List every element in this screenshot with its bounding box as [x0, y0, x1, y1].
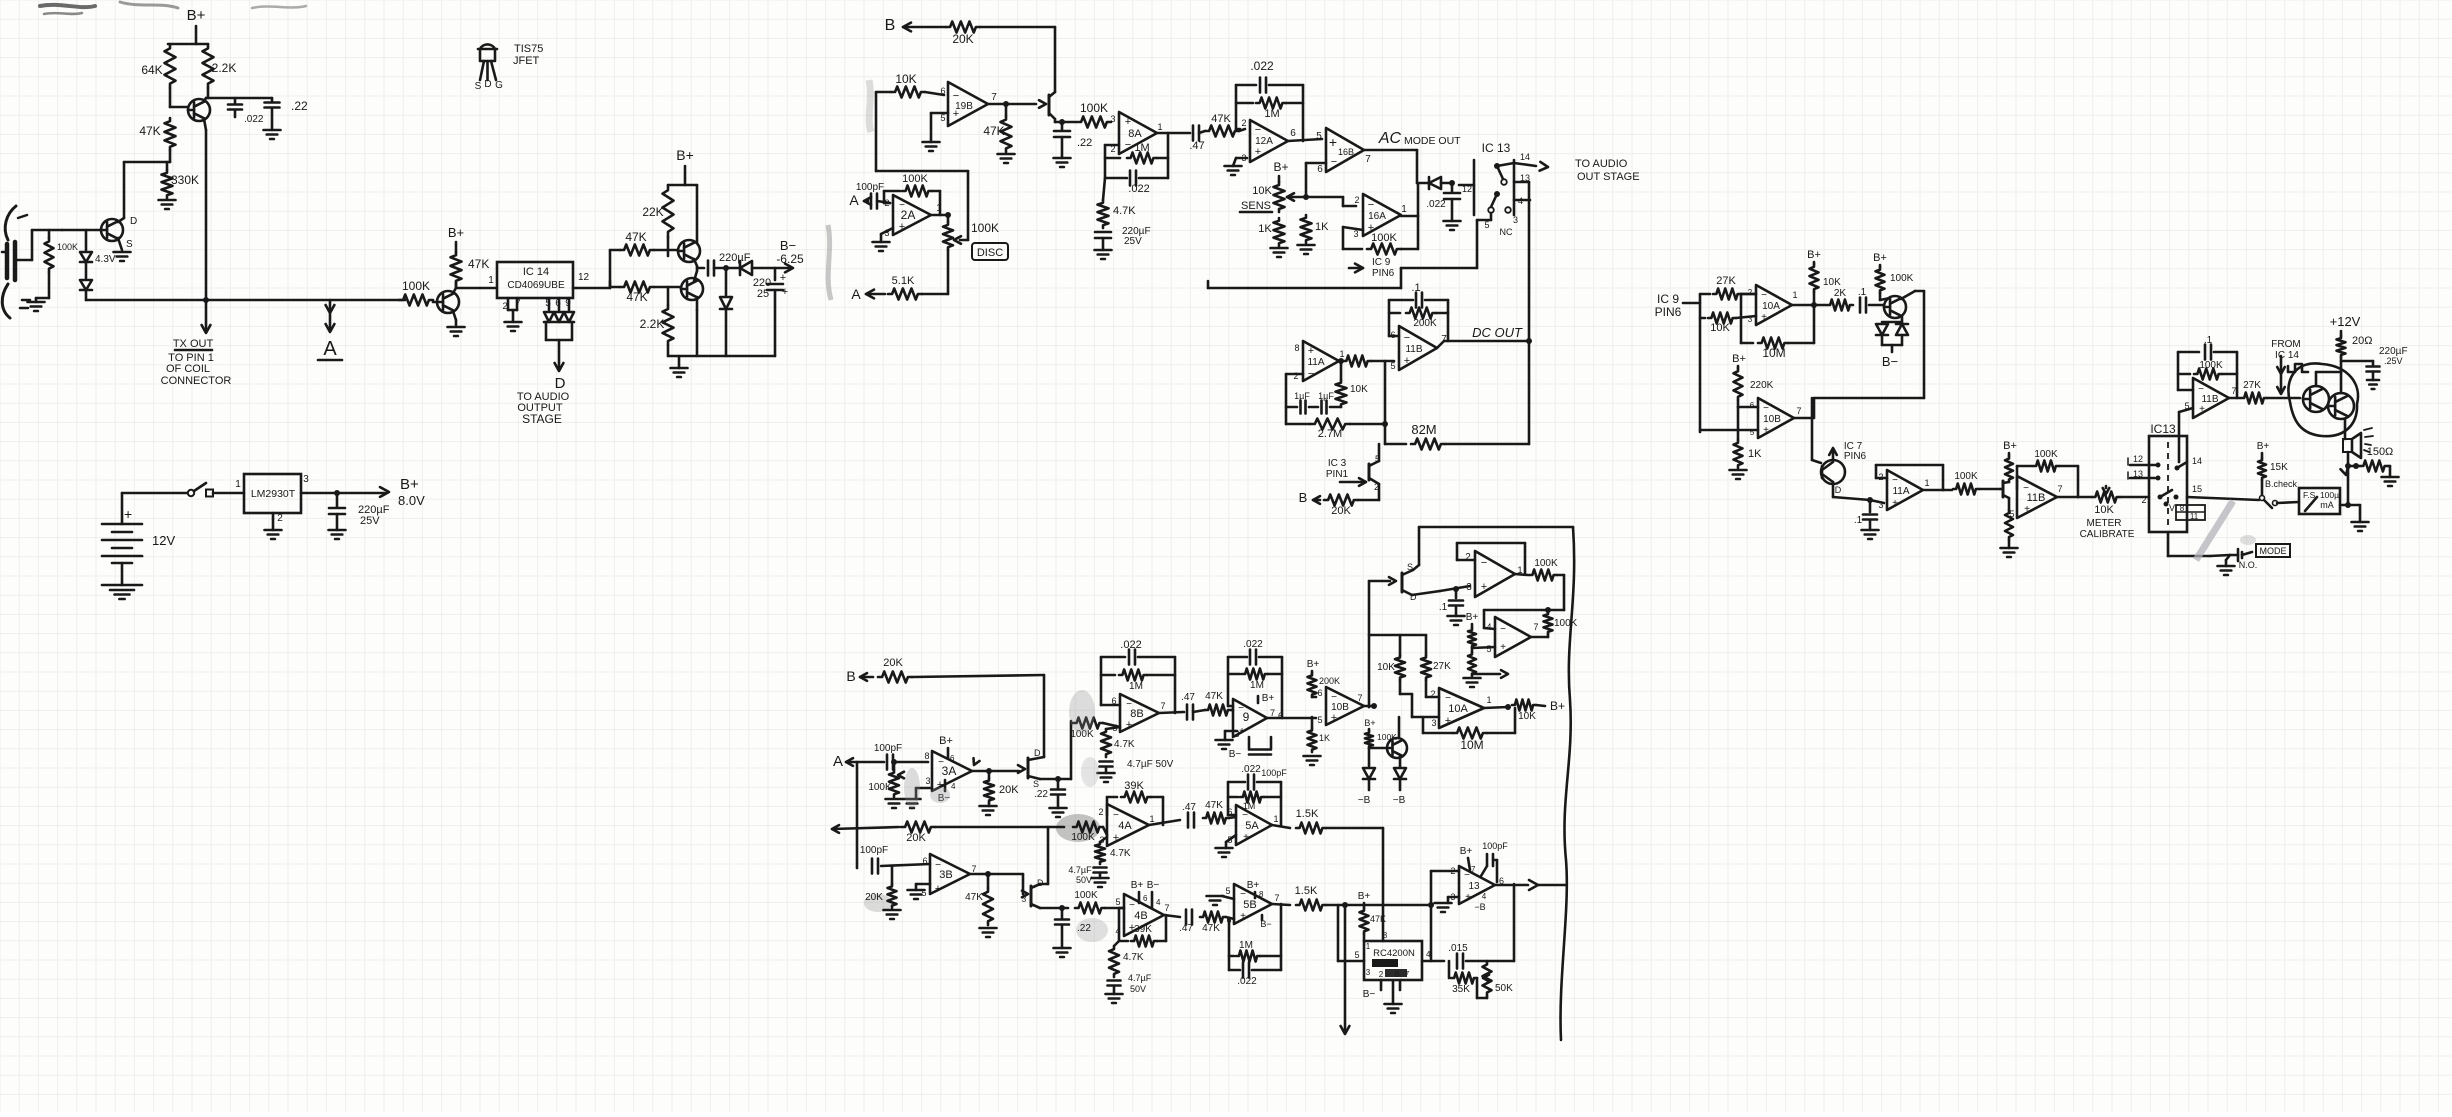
wire long row: [1208, 287, 1401, 290]
svg-text:A: A: [849, 192, 859, 208]
svg-text:50K: 50K: [1495, 983, 1513, 994]
resistor 47K (Q5 base): [620, 282, 654, 293]
svg-text:3: 3: [1748, 315, 1753, 324]
svg-text:100K: 100K: [971, 221, 999, 235]
svg-text:+: +: [2024, 504, 2030, 515]
op-amp 10B (bm): [1326, 687, 1364, 725]
svg-text:8B: 8B: [1130, 708, 1143, 720]
svg-text:B+: B+: [1358, 891, 1371, 902]
op-amp 6A: [1475, 551, 1515, 597]
capacitor .022 (AC): [1449, 180, 1455, 186]
wire driver bottom rail: [668, 355, 775, 358]
potentiometer 50K: [1483, 961, 1492, 996]
diode D3: [740, 261, 752, 275]
svg-text:B+: B+: [1873, 252, 1887, 264]
svg-text:47K: 47K: [965, 892, 983, 903]
svg-text:+: +: [953, 108, 959, 120]
svg-text:F.S. 100µ: F.S. 100µ: [2303, 490, 2339, 500]
svg-text:3: 3: [925, 776, 930, 786]
svg-text:−: −: [1331, 156, 1337, 168]
op-amp 2A: [893, 195, 931, 235]
svg-text:27K: 27K: [1433, 661, 1451, 672]
wire row2 to 13: [1383, 904, 1431, 907]
capacitor .1 (6A): [1453, 586, 1459, 592]
wire 22K to base: [667, 237, 670, 250]
wire to 3A pin: [896, 761, 928, 764]
svg-text:1µF: 1µF: [1318, 391, 1334, 401]
svg-text:10K: 10K: [1377, 662, 1395, 673]
op-amp 10B (right): [1758, 398, 1794, 438]
svg-text:4B: 4B: [1134, 910, 1147, 922]
diode D4 vertical: [725, 268, 728, 295]
svg-text:1: 1: [1366, 942, 1371, 951]
svg-text:+: +: [1500, 642, 1506, 653]
svg-text:STAGE: STAGE: [522, 412, 562, 426]
svg-text:CONNECTOR: CONNECTOR: [161, 375, 232, 387]
potentiometer 10K meter cal: [2092, 492, 2120, 503]
svg-text:1: 1: [1157, 122, 1162, 132]
svg-text:5: 5: [1390, 361, 1395, 371]
resistor divider upper: [1468, 628, 1476, 648]
wire 13 pin2 loop: [1431, 870, 1459, 873]
diode pair D7 D8: [1901, 316, 1904, 322]
resistor 1.5K (5A out): [1296, 823, 1326, 834]
potentiometer 10K SENS: [1274, 182, 1285, 212]
resistor (11B lower): [2005, 510, 2013, 540]
regulator LM2930T: [244, 474, 301, 513]
svg-text:B+: B+: [1364, 718, 1375, 728]
IC13b box: [2149, 436, 2187, 532]
svg-text:12: 12: [578, 272, 590, 283]
ground (input): [35, 298, 38, 302]
svg-text:+12V: +12V: [2330, 314, 2361, 329]
svg-text:4.7K: 4.7K: [1123, 952, 1144, 963]
svg-text:16A: 16A: [1368, 211, 1386, 222]
jfet J6 (right): [1821, 460, 1845, 484]
svg-text:B+: B+: [1307, 659, 1320, 670]
svg-text:1K: 1K: [1319, 733, 1330, 743]
svg-text:B+: B+: [1732, 353, 1746, 365]
svg-text:100K: 100K: [1080, 101, 1108, 115]
svg-text:150Ω: 150Ω: [2367, 446, 2394, 458]
op-amp 19B: [948, 82, 988, 126]
smudge 4A row: [1056, 814, 1100, 842]
wire 2.7M right: [1384, 361, 1387, 424]
regulator pin 2 ground: [272, 513, 275, 519]
svg-text:1: 1: [235, 479, 241, 490]
wire J5 D to 6A: [1412, 591, 1440, 595]
wire to IC13b: [2120, 496, 2149, 499]
svg-text:200K: 200K: [1319, 676, 1340, 686]
transistor Q7: [1884, 296, 1906, 318]
wire 3B plus gnd: [916, 883, 930, 886]
svg-text:7: 7: [1796, 406, 1801, 416]
resistor 47K (3B out): [987, 874, 990, 888]
svg-text:METER: METER: [2087, 518, 2122, 529]
svg-text:TIS75: TIS75: [514, 43, 543, 55]
svg-text:.47: .47: [1182, 802, 1196, 813]
resistor 100K (11A out): [1943, 489, 1952, 492]
svg-text:100K: 100K: [1554, 618, 1578, 629]
svg-text:5: 5: [2009, 509, 2014, 519]
svg-text:4: 4: [951, 782, 956, 791]
svg-text:5: 5: [1486, 644, 1491, 654]
resistor 1.5K (5B out): [1296, 900, 1326, 911]
svg-text:39K: 39K: [1124, 780, 1144, 792]
svg-text:−: −: [1126, 699, 1132, 710]
IC13 pin13 wire: [1514, 181, 1529, 184]
svg-text:1M: 1M: [1243, 801, 1256, 811]
svg-text:−: −: [1500, 624, 1506, 635]
svg-text:22K: 22K: [642, 205, 663, 219]
capacitor 1uF b: [1309, 406, 1318, 409]
svg-text:1M: 1M: [1239, 940, 1253, 951]
capacitor .1 (right): [1859, 298, 1862, 313]
svg-text:2: 2: [1354, 195, 1359, 205]
op-amp 12A: [1250, 120, 1288, 162]
svg-text:3: 3: [1110, 114, 1115, 124]
wire 13 in: [1422, 960, 1444, 963]
capacitor 4.7uF (8B): [1100, 760, 1113, 763]
wire 47K to Q5: [654, 286, 681, 289]
svg-text:RC4200N: RC4200N: [1373, 948, 1415, 959]
resistor 20K (B return): [1313, 499, 1320, 502]
svg-text:−: −: [1763, 403, 1769, 414]
svg-text:47K: 47K: [983, 124, 1004, 138]
svg-text:+: +: [1126, 719, 1132, 731]
label B+ (9): [1257, 696, 1260, 703]
arrow B- out: [775, 267, 790, 270]
6A feedback wire: [1457, 559, 1475, 562]
svg-text:PIN6: PIN6: [1372, 268, 1395, 279]
svg-text:7: 7: [971, 864, 976, 874]
svg-text:4.7K: 4.7K: [1114, 739, 1135, 750]
capacitor 4.7uF (4B): [1108, 979, 1121, 982]
wire top rail: [168, 43, 208, 46]
svg-text:100K: 100K: [1954, 471, 1978, 482]
resistor 1M (12A fb): [1236, 102, 1253, 105]
node 220uF: [697, 267, 704, 270]
svg-text:7: 7: [1274, 893, 1279, 903]
wire 9 fb right: [1281, 657, 1284, 718]
svg-text:A: A: [851, 286, 861, 302]
svg-text:.1: .1: [1858, 287, 1867, 298]
svg-text:1: 1: [1792, 290, 1797, 300]
op-amp 5B: [1234, 884, 1272, 924]
svg-text:−: −: [1242, 810, 1248, 821]
svg-text:4.7K: 4.7K: [1113, 205, 1136, 217]
resistor 20K (bm B): [878, 672, 912, 683]
svg-text:20K: 20K: [1331, 505, 1351, 517]
11A feedback: [1876, 477, 1887, 480]
potentiometer 100K DISC: [943, 222, 953, 250]
wire 3B out: [970, 873, 1023, 876]
resistor 4.7K (4A): [1100, 837, 1107, 842]
wire 16B out: [1364, 149, 1417, 152]
svg-text:.022: .022: [1243, 639, 1263, 650]
svg-text:47K: 47K: [1211, 113, 1231, 125]
wire 6A out loop: [1563, 575, 1566, 610]
resistor 1K (16B): [1301, 215, 1312, 243]
svg-text:1.5K: 1.5K: [1296, 808, 1319, 820]
capacitor 220uF: [707, 261, 710, 276]
svg-text:1: 1: [1339, 349, 1344, 359]
svg-text:2: 2: [1098, 807, 1103, 817]
ground IC14: [505, 321, 522, 324]
resistor 22K: [663, 185, 674, 237]
svg-text:35K: 35K: [1452, 984, 1470, 995]
jfet J5: [1369, 580, 1390, 583]
svg-text:1K: 1K: [1258, 223, 1272, 235]
ground under .22: [264, 129, 281, 132]
capacitor .015: [1456, 954, 1459, 969]
resistor 100K (11B top fb): [2178, 373, 2190, 376]
svg-text:PIN6: PIN6: [1844, 451, 1867, 462]
ground 5A plus: [1226, 835, 1236, 842]
label IC9 PIN6 arrow: [1355, 264, 1363, 273]
svg-text:+: +: [1329, 134, 1337, 150]
capacitor .47 (8B out): [1186, 705, 1189, 720]
svg-text:1.5K: 1.5K: [1295, 885, 1318, 897]
wire DC OUT: [1437, 341, 1444, 348]
smudge 8B: [1069, 690, 1095, 734]
capacitor 100pF (3A): [886, 755, 889, 770]
transistor Q5: [681, 278, 703, 300]
svg-text:100K: 100K: [2034, 449, 2058, 460]
svg-text:220µF: 220µF: [719, 252, 751, 264]
10B bias 1K: [1311, 717, 1314, 728]
wire 5B fb right: [1280, 904, 1283, 970]
svg-text:15: 15: [2192, 484, 2202, 494]
svg-text:TX OUT: TX OUT: [173, 338, 214, 350]
svg-text:10K: 10K: [1518, 711, 1536, 722]
svg-text:PIN1: PIN1: [1326, 469, 1349, 480]
svg-text:+: +: [1308, 345, 1314, 357]
resistor 1K (right): [1737, 430, 1740, 440]
svg-text:−B: −B: [1474, 902, 1485, 912]
op-amp 11A: [1303, 341, 1339, 381]
ground 2A plus: [881, 228, 893, 234]
svg-text:4: 4: [1156, 898, 1161, 907]
svg-text:2: 2: [277, 513, 283, 524]
IC13 pin14 wire: [1497, 163, 1514, 166]
op-amp 9: [1233, 699, 1267, 737]
svg-text:−: −: [1308, 368, 1314, 380]
svg-text:2.2K: 2.2K: [640, 317, 665, 331]
svg-text:B+: B+: [1247, 880, 1260, 891]
svg-text:+: +: [1892, 498, 1898, 509]
transistor Q8: [2303, 386, 2329, 412]
svg-text:.1: .1: [1439, 602, 1448, 613]
resistor 100K (6A out): [1515, 574, 1528, 575]
capacitor .022 (8A fb): [1105, 177, 1127, 180]
resistor 35K: [1448, 961, 1451, 978]
svg-text:2K: 2K: [1834, 288, 1847, 299]
svg-text:6: 6: [950, 754, 955, 763]
wire Q1 base: [169, 88, 172, 107]
svg-text:DISC: DISC: [977, 247, 1003, 259]
wire B arrow: [903, 23, 911, 32]
svg-text:.47: .47: [1179, 923, 1193, 934]
jfet J7 (meter): [2002, 481, 2005, 497]
capacitor .22 (8A in): [1059, 119, 1065, 125]
resistor 100K (3A gnd): [891, 759, 897, 765]
capacitor .22 (J4): [1059, 905, 1065, 911]
svg-text:100K: 100K: [2199, 360, 2223, 371]
wire 8A fb right: [1167, 133, 1170, 178]
svg-text:B: B: [885, 17, 896, 34]
jfet J4: [1022, 874, 1025, 894]
resistor 100K (4A in): [1073, 822, 1103, 833]
svg-text:6: 6: [1143, 894, 1148, 903]
wire 16B pin6: [1306, 162, 1326, 165]
capacitor .1 (11B top fb): [2178, 389, 2193, 392]
svg-text:10K: 10K: [1350, 384, 1368, 395]
svg-text:10K: 10K: [895, 72, 916, 86]
svg-text:27K: 27K: [1716, 275, 1736, 287]
resistor 1M (5B fb): [1228, 919, 1231, 956]
svg-text:5: 5: [1115, 897, 1120, 907]
diodes on pins 5 6 9: [544, 312, 554, 322]
capacitor .022 (12A fb): [1236, 128, 1240, 131]
svg-text:TO AUDIO: TO AUDIO: [1575, 158, 1628, 170]
svg-text:220K: 220K: [1750, 380, 1774, 391]
capacitor .022 (5B fb): [1228, 956, 1231, 970]
svg-text:5: 5: [1317, 715, 1322, 725]
smudge meter area: [2240, 535, 2256, 545]
jfet J3: [1027, 758, 1030, 778]
resistor 100K (8B in): [1073, 718, 1103, 729]
transistor Q4: [678, 240, 700, 262]
capacitor .22 (J3): [1055, 776, 1061, 782]
main wire node A row: [86, 299, 405, 302]
svg-text:8: 8: [1294, 343, 1299, 353]
svg-text:7: 7: [1357, 693, 1362, 703]
wire J4 drain to row2: [1040, 883, 1048, 886]
resistor 4.7K (8B): [1106, 727, 1120, 729]
svg-text:7: 7: [1471, 865, 1476, 874]
smudge left margin: [828, 225, 831, 300]
svg-text:100pF: 100pF: [856, 182, 884, 193]
ground 9 plus: [1225, 730, 1237, 733]
svg-text:8: 8: [1383, 931, 1388, 940]
svg-text:6: 6: [1395, 970, 1400, 979]
svg-text:−: −: [1761, 290, 1767, 301]
svg-text:B+: B+: [1550, 699, 1565, 713]
wire 20K to JFET drain: [980, 26, 1055, 29]
resistor 27K (10A in): [1700, 293, 1710, 296]
svg-text:5: 5: [1225, 886, 1230, 896]
svg-text:OF COIL: OF COIL: [166, 363, 210, 375]
svg-text:47K: 47K: [1205, 691, 1223, 702]
svg-text:14: 14: [2192, 456, 2202, 466]
resistor 20K (3B gnd): [891, 866, 894, 884]
op-amp 11B top: [2193, 378, 2229, 418]
svg-text:B−: B−: [780, 238, 796, 253]
svg-text:.25V: .25V: [2384, 356, 2403, 366]
svg-text:CD4069UBE: CD4069UBE: [507, 280, 565, 291]
power switch: [188, 490, 194, 496]
svg-text:47K: 47K: [1370, 914, 1386, 924]
svg-text:D: D: [484, 79, 491, 90]
wire 9 out: [1267, 717, 1316, 720]
svg-text:IC 3: IC 3: [1328, 458, 1347, 469]
svg-text:−: −: [938, 757, 944, 768]
capacitor 220/25: [774, 268, 777, 280]
svg-text:1: 1: [1924, 478, 1929, 488]
wire IC9 to inputs: [1683, 302, 1700, 305]
svg-text:1M: 1M: [1129, 681, 1143, 692]
svg-text:6: 6: [1317, 688, 1322, 698]
wire 8A fb left: [1105, 144, 1119, 147]
svg-text:-6.25: -6.25: [776, 252, 804, 266]
svg-text:A: A: [323, 338, 337, 360]
resistor (11A out): [1343, 356, 1371, 367]
svg-text:B−: B−: [1882, 354, 1898, 369]
capacitor .022: [234, 98, 237, 104]
svg-text:1µF: 1µF: [1294, 391, 1310, 401]
resistor 20K (3A out): [986, 768, 992, 774]
smudge corner: [40, 5, 95, 7]
diode D5 (bm): [1368, 748, 1371, 766]
svg-text:B+: B+: [2003, 440, 2017, 452]
svg-text:.47: .47: [1181, 692, 1195, 703]
wire A vertical: [856, 762, 859, 868]
resistor 20ohm: [2337, 336, 2346, 357]
svg-text:200K: 200K: [1413, 318, 1437, 329]
resistor 100K (16A fb): [1343, 227, 1363, 230]
wire 16A out: [1401, 215, 1418, 218]
svg-text:5B: 5B: [1243, 899, 1256, 911]
svg-text:100K: 100K: [1371, 232, 1397, 244]
wire 5A fb right: [1280, 782, 1283, 825]
enclosure top: [1419, 526, 1573, 529]
capacitor .22: [271, 98, 274, 102]
IC13 left rail: [1473, 160, 1476, 215]
wire node to 16A: [1306, 196, 1343, 199]
svg-text:3B: 3B: [939, 869, 952, 881]
svg-text:AC: AC: [1378, 130, 1402, 147]
resistor 10M (10A fb): [1422, 717, 1425, 733]
svg-text:−: −: [1255, 124, 1261, 136]
svg-text:.022: .022: [1250, 59, 1274, 73]
IC13 pole 2: [1494, 191, 1500, 197]
svg-text:7: 7: [1365, 154, 1371, 165]
IC13 right rail: [1513, 160, 1516, 215]
svg-text:B+: B+: [1262, 693, 1275, 704]
svg-text:V: V: [2169, 503, 2175, 513]
svg-text:−: −: [1125, 139, 1131, 151]
svg-text:5: 5: [1316, 131, 1322, 142]
svg-text:−: −: [1129, 900, 1135, 911]
wire Q3 collector: [453, 288, 456, 293]
wire 12A out: [1288, 139, 1322, 141]
wire cap to diode: [714, 267, 740, 270]
svg-text:10K: 10K: [2094, 504, 2114, 516]
wire Q4 emitter to Q5 collector: [694, 259, 697, 266]
svg-text:S: S: [126, 239, 133, 250]
IC14 CD4069UBE box: [497, 262, 573, 298]
wire arrow down (bm): [1345, 904, 1383, 907]
svg-text:+: +: [935, 883, 941, 895]
resistor 47K (5B in): [1200, 912, 1226, 923]
svg-text:B+: B+: [400, 476, 419, 493]
svg-text:100K: 100K: [1071, 832, 1095, 843]
svg-text:10K: 10K: [1710, 322, 1730, 334]
svg-text:11B: 11B: [1405, 344, 1422, 355]
ground 5B minus: [1222, 896, 1234, 899]
svg-text:1K: 1K: [1748, 448, 1762, 460]
